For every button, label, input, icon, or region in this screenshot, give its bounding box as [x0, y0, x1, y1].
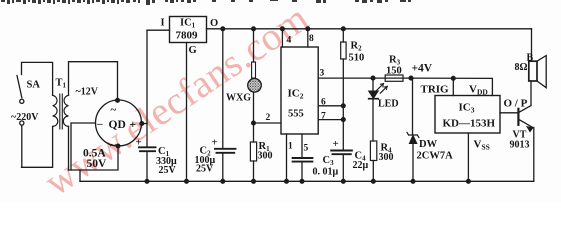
transformer T1 primary winding — [53, 95, 58, 126]
svg-text:O / P: O / P — [504, 98, 528, 110]
wire bridge AC bottom link — [69, 146, 119, 170]
transformer T1 secondary winding — [63, 95, 68, 126]
wire +4V to VDD — [411, 78, 492, 95]
label pin 8 — [309, 34, 314, 44]
speaker B — [529, 56, 546, 88]
node pin6 junction — [341, 104, 345, 108]
svg-text:~12V: ~12V — [76, 87, 99, 98]
capacitor C1 — [139, 147, 156, 151]
wire pin 4 — [281, 29, 283, 47]
svg-text:+: + — [333, 138, 339, 150]
svg-text:150: 150 — [386, 66, 402, 77]
node bridge plus — [140, 122, 144, 126]
label 50V — [87, 158, 108, 170]
svg-text:3: 3 — [320, 69, 325, 79]
label C2 25V — [196, 164, 214, 175]
label C4 22u — [353, 160, 369, 171]
label 8ohm — [515, 62, 528, 73]
label +4V — [412, 63, 433, 75]
label IC1 — [180, 18, 196, 30]
label 0.5A — [83, 148, 106, 160]
label pin 4 — [287, 36, 292, 46]
bridge rectifier QD — [96, 100, 142, 146]
svg-text:T1: T1 — [56, 78, 67, 90]
wire bottom ground rail — [80, 180, 534, 182]
svg-text:–: – — [96, 118, 103, 130]
node rail R1 — [252, 179, 256, 183]
svg-text:6: 6 — [321, 98, 326, 108]
node bridge bottom — [116, 144, 120, 148]
svg-text:IC1: IC1 — [180, 18, 196, 30]
label VT — [513, 130, 527, 141]
label R2 — [351, 41, 363, 53]
transistor VT 9013 — [518, 106, 533, 182]
capacitor C3 — [293, 158, 313, 181]
label C1 330u — [156, 156, 177, 167]
node TRIG tap — [451, 76, 455, 80]
svg-text:8: 8 — [309, 34, 314, 44]
label ~220V — [11, 112, 39, 123]
svg-text:VDD: VDD — [469, 84, 488, 97]
svg-text:50V: 50V — [87, 158, 108, 170]
label C2 plus — [212, 137, 218, 149]
label T1 — [56, 78, 67, 90]
label bridge - QD + — [96, 118, 136, 131]
wire pin 7 — [318, 119, 343, 121]
svg-text:B: B — [527, 53, 534, 64]
capacitor C4 — [331, 151, 352, 182]
label 7809 — [176, 30, 199, 42]
node rail DW — [411, 179, 415, 183]
wire pin 1 — [286, 134, 288, 181]
svg-text:WXG: WXG — [226, 93, 251, 104]
node rail C1 — [145, 179, 149, 183]
label TRIG — [421, 84, 450, 96]
svg-text:IC3: IC3 — [459, 102, 475, 115]
wire bridge minus to ground — [71, 123, 96, 181]
wire secondary top to bridge — [69, 62, 118, 101]
timer IC2 555 box — [281, 47, 318, 134]
label C2 — [200, 146, 212, 158]
switch SA — [17, 76, 24, 126]
label C4 — [355, 151, 367, 163]
svg-text:QD: QD — [109, 119, 126, 131]
wire pin 2 — [254, 122, 282, 124]
label R1 — [259, 141, 271, 153]
label O/P — [504, 98, 528, 110]
resistor R1 — [250, 142, 256, 181]
label C4 plus — [333, 138, 339, 150]
label pin 5 — [304, 144, 309, 154]
node LED tap — [371, 76, 375, 80]
wire mains loop bottom — [22, 125, 53, 167]
voltage regulator IC1 7809 box — [170, 17, 207, 43]
svg-text:4: 4 — [287, 36, 292, 46]
wire IC1 ground pin — [186, 43, 188, 182]
svg-text:+: + — [212, 137, 218, 149]
zener diode DW 2CW7A — [407, 78, 419, 181]
node rail R4 — [371, 179, 375, 183]
node pin7 junction — [341, 118, 345, 122]
label C1 — [158, 146, 170, 158]
node +4V — [409, 76, 413, 80]
label pin 7 — [321, 112, 326, 122]
label bridge ~ bottom — [110, 140, 116, 152]
node pin2 divider — [252, 121, 256, 125]
label WXG — [226, 93, 251, 104]
svg-text:25V: 25V — [196, 164, 214, 175]
node rail C3 — [300, 179, 304, 183]
capacitor C2 — [215, 29, 236, 182]
svg-text:300: 300 — [258, 151, 273, 162]
label B — [527, 53, 534, 64]
svg-text:VSS: VSS — [474, 139, 490, 152]
label R1 300 — [258, 151, 273, 162]
label C3 — [323, 155, 335, 167]
label DW — [419, 139, 438, 150]
svg-text:22μ: 22μ — [353, 160, 369, 171]
wire speaker feed — [530, 29, 533, 106]
node bridge top — [116, 98, 120, 102]
svg-text:DW: DW — [419, 139, 438, 150]
svg-text:LED: LED — [378, 99, 399, 110]
wire pin 3 output — [318, 77, 411, 79]
music IC3 KD-153H box — [435, 96, 500, 134]
svg-text:R2: R2 — [351, 41, 363, 53]
node top C2 — [221, 27, 225, 31]
wire O/P pin — [500, 112, 518, 114]
svg-text:+: + — [130, 119, 137, 131]
svg-text:SA: SA — [27, 80, 41, 91]
resistor R4 — [370, 141, 376, 181]
wire pin 6 — [318, 105, 343, 107]
label pin 1 — [288, 142, 293, 152]
svg-text:2CW7A: 2CW7A — [417, 151, 454, 162]
label C1 25V — [159, 165, 177, 176]
wire VSS pin — [467, 133, 469, 181]
wire pin 8 — [307, 29, 309, 47]
label bridge ~ top — [111, 104, 117, 116]
svg-text:G: G — [189, 45, 197, 56]
svg-text:5: 5 — [304, 144, 309, 154]
label 9013 — [510, 140, 530, 151]
label R4 300 — [379, 152, 394, 163]
label ~12V — [76, 87, 99, 98]
resistor R3 — [385, 75, 403, 81]
wire mains loop top — [22, 62, 53, 95]
wire secondary bottom — [68, 126, 70, 170]
top cropped caption fragments — [1, 0, 411, 5]
label R3 — [389, 55, 401, 67]
svg-text:I: I — [161, 18, 165, 29]
label 2CW7A — [417, 151, 454, 162]
svg-text:8Ω: 8Ω — [515, 62, 528, 73]
wire IC1 input — [147, 29, 170, 31]
label pin 6 — [321, 98, 326, 108]
svg-text:2: 2 — [266, 113, 271, 123]
svg-text:KD—153H: KD—153H — [443, 118, 496, 130]
svg-text:+4V: +4V — [412, 63, 433, 75]
label I pin — [161, 18, 165, 29]
watermark www.elecfans.com — [36, 0, 316, 204]
svg-text:0. 01μ: 0. 01μ — [313, 167, 339, 178]
label C1 plus — [136, 137, 142, 149]
label IC3 — [459, 102, 475, 115]
svg-text:~: ~ — [111, 104, 117, 116]
svg-text:25V: 25V — [159, 165, 177, 176]
node top pin4 — [281, 27, 285, 31]
label O pin — [210, 18, 218, 29]
resistor R2 — [341, 29, 346, 150]
label pin 3 — [320, 69, 325, 79]
svg-text:TRIG: TRIG — [421, 84, 450, 96]
LED — [369, 78, 388, 141]
wire top 9V rail — [207, 28, 532, 30]
svg-text:~220V: ~220V — [11, 112, 39, 123]
node rail pin1 — [285, 179, 289, 183]
label SA — [27, 80, 41, 91]
svg-text:O: O — [210, 18, 218, 29]
svg-text:C3: C3 — [323, 155, 335, 167]
label C2 100u — [195, 155, 216, 166]
label C3 0.01u — [313, 167, 339, 178]
node top WXG — [252, 27, 256, 31]
node rail VSS — [467, 179, 471, 183]
label R3 150 — [386, 66, 402, 77]
svg-text:+: + — [136, 137, 142, 149]
svg-text:300: 300 — [379, 152, 394, 163]
transformer core — [60, 94, 63, 129]
sensor WXG probe — [248, 29, 262, 92]
label VSS — [474, 139, 490, 152]
node rail G — [185, 179, 189, 183]
label IC2 — [288, 88, 304, 101]
svg-text:1: 1 — [288, 142, 293, 152]
node rail C2 — [221, 179, 225, 183]
wire unregulated rail vertical — [146, 30, 148, 181]
svg-text:555: 555 — [288, 109, 304, 120]
svg-text:9013: 9013 — [510, 140, 530, 151]
node rail C4 — [341, 179, 345, 183]
wire WXG to node 2 — [253, 92, 255, 142]
node top R2 — [341, 27, 345, 31]
label R2 510 — [349, 53, 365, 64]
svg-text:IC2: IC2 — [288, 88, 304, 101]
label 555 — [288, 109, 304, 120]
svg-text:510: 510 — [349, 53, 365, 64]
svg-text:7809: 7809 — [176, 30, 199, 42]
label R4 — [381, 143, 393, 155]
wire pin 5 — [301, 134, 303, 157]
svg-text:7: 7 — [321, 112, 326, 122]
label pin 2 — [266, 113, 271, 123]
svg-text:~: ~ — [110, 140, 116, 152]
wire TRIG pin — [452, 78, 454, 95]
wire bridge plus stub — [142, 123, 147, 125]
label VDD — [469, 84, 488, 97]
label G pin — [189, 45, 197, 56]
label LED — [378, 99, 399, 110]
label KD-153H — [443, 118, 496, 130]
node top pin8 — [306, 27, 310, 31]
